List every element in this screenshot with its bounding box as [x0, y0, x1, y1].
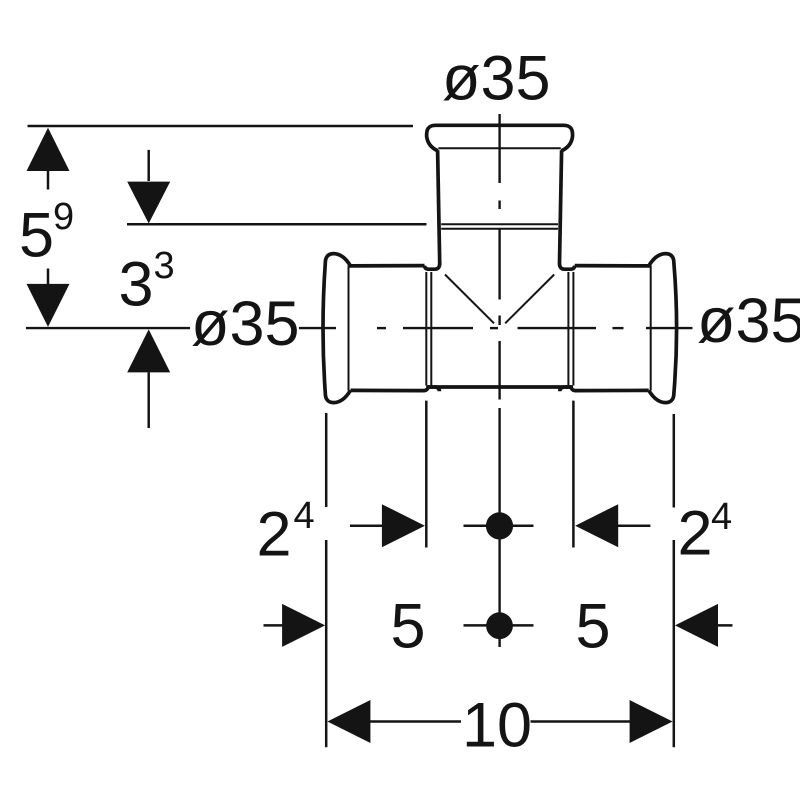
svg-text:ø35: ø35	[191, 289, 300, 359]
svg-text:5: 5	[19, 201, 54, 271]
svg-text:2: 2	[678, 499, 713, 569]
svg-text:3: 3	[119, 250, 154, 320]
svg-text:5: 5	[576, 592, 611, 662]
svg-text:5: 5	[391, 592, 426, 662]
svg-text:2: 2	[257, 500, 292, 570]
svg-text:ø35: ø35	[442, 44, 551, 114]
svg-text:9: 9	[53, 196, 74, 238]
svg-text:4: 4	[294, 495, 315, 537]
svg-text:10: 10	[462, 691, 532, 761]
svg-text:3: 3	[154, 245, 175, 287]
svg-text:4: 4	[711, 496, 732, 538]
svg-text:ø35: ø35	[697, 286, 800, 356]
